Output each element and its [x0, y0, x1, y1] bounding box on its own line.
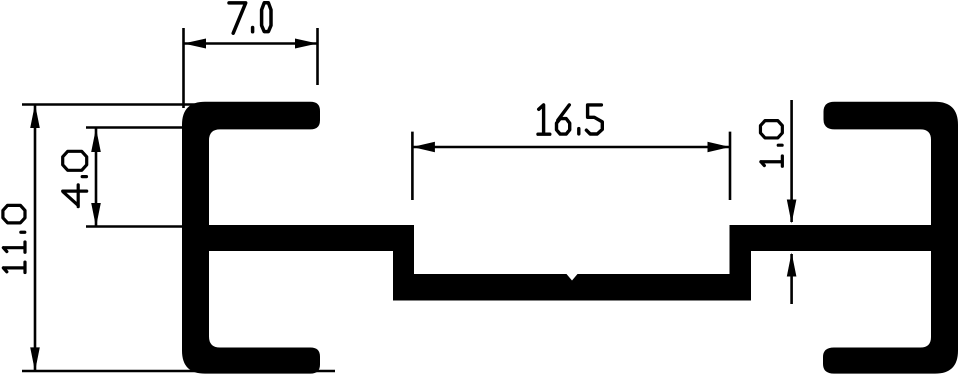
dimension 11.0 extension line bottom — [22, 370, 335, 373]
dimension 11.0 arrow bottom — [30, 347, 40, 371]
dimension 16.5 arrow left — [412, 142, 435, 152]
profile right channel — [823, 102, 958, 374]
dimension 4.0 extension line bottom — [86, 225, 198, 228]
dimension 4.0 arrow bottom — [91, 203, 101, 227]
dimension 16.5 text — [538, 105, 602, 134]
dimension 16.5 arrow right — [708, 142, 731, 152]
dimension 4.0 extension line top — [86, 126, 195, 129]
dimension 4.0 dimension line — [95, 128, 98, 227]
dimension 11.0 arrow top — [30, 104, 40, 128]
profile left channel with middle web — [182, 102, 940, 374]
dimension 7.0 extension line left — [182, 28, 185, 108]
dimension 1.0 text — [760, 121, 782, 167]
dimension 4.0 text — [63, 151, 87, 206]
dimension 7.0 extension line right — [316, 28, 319, 85]
dimension 4.0 arrow top — [91, 128, 101, 152]
dimension 1.0 arrow up — [787, 253, 797, 277]
dimension 16.5 dimension line — [412, 146, 730, 149]
dimension 1.0 leader line upper — [790, 100, 793, 222]
dimension 16.5 extension line right — [729, 132, 732, 200]
dimension 11.0 text — [3, 205, 25, 272]
dimension 1.0 arrow down — [787, 200, 797, 224]
dimension 7.0 dimension line — [184, 42, 318, 45]
dimension 7.0 arrow right — [295, 39, 318, 49]
dimension 7.0 text — [229, 3, 271, 33]
dimension 7.0 arrow left — [184, 39, 207, 49]
dimension 16.5 extension line left — [411, 132, 414, 200]
dimension 1.0 leader line lower — [790, 254, 793, 304]
dimension 11.0 dimension line — [34, 105, 37, 372]
dimension 11.0 extension line top — [22, 103, 207, 106]
